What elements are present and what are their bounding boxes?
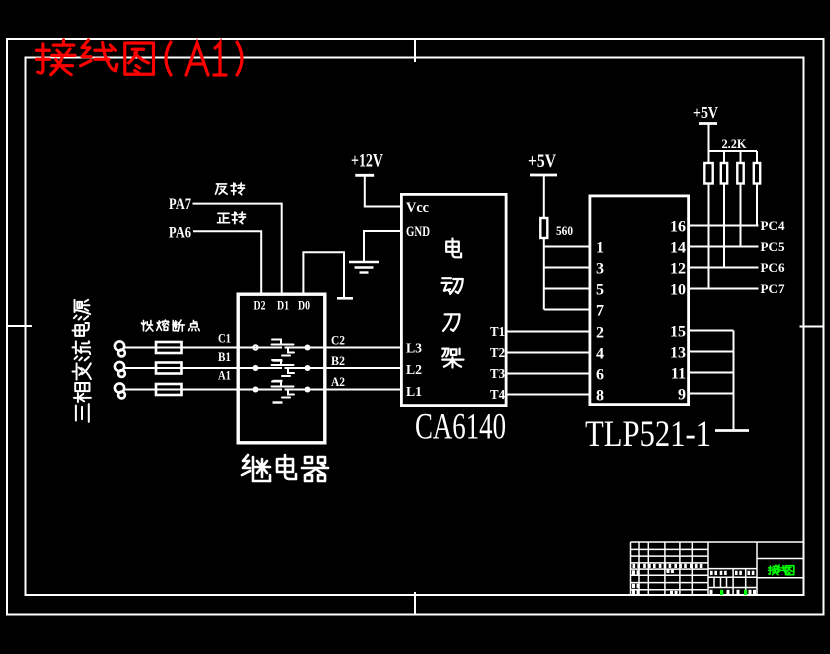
svg-text:PC7: PC7 [761,281,785,296]
wire pin 9 to common [689,393,734,395]
terminal A1 input [115,383,124,392]
wire pin 16 to PC4 [689,225,759,227]
linkage mark row A [273,401,283,403]
svg-text:B1: B1 [218,349,231,364]
svg-text:L2: L2 [406,363,422,378]
wire branch to pin 1 [544,246,590,248]
svg-text:9: 9 [678,387,686,404]
wire phase A1 [124,389,282,391]
relay contact row B [253,365,259,371]
svg-text:T4: T4 [490,388,505,403]
svg-text:4: 4 [596,346,604,363]
wire resistor #2 down [723,184,725,268]
svg-text:2: 2 [596,325,604,342]
drawing name 接线图 (green) [769,565,780,575]
wire GND pin to ground [364,231,401,262]
terminal C1 input [115,341,124,350]
resistor 560 [543,175,545,218]
fuse C1 (快熔) [156,342,182,353]
svg-text:2.2K: 2.2K [722,136,748,151]
svg-text:GND: GND [406,224,430,240]
svg-text:16: 16 [670,219,686,236]
svg-text:15: 15 [670,324,686,341]
wire PA7 to D1 [193,204,282,293]
svg-text:PA7: PA7 [169,196,191,213]
title block grid [631,542,805,596]
wire resistor #4 down [756,184,758,226]
svg-text:14: 14 [670,240,686,257]
wire phase B1 [124,367,282,369]
svg-text:L1: L1 [406,385,422,400]
junction dot row B [305,365,311,371]
wire D0 stub [303,252,344,297]
svg-text:13: 13 [670,345,686,362]
svg-text:+5V: +5V [693,103,719,122]
wire +12V to Vcc [365,175,401,206]
wire pin 13 to common [689,351,734,353]
svg-text:A1: A1 [218,368,231,383]
svg-text:7: 7 [596,303,604,320]
termination bar [715,429,749,432]
label 快熔断点 [141,320,153,331]
svg-text:D0: D0 [298,299,310,313]
wire pin 11 to common [689,372,734,374]
wire +5V to bus [709,124,758,152]
svg-text:D2: D2 [254,299,266,313]
wire resistor #3 down [740,184,742,247]
label 反转 [215,184,227,194]
label 三相交流电源 (three-phase AC supply) [74,300,90,320]
svg-text:PC6: PC6 [761,260,785,275]
label 电动刀架 vertical [446,238,461,257]
label 正转 [217,213,229,222]
wire pin 10 to PC7 [689,288,759,290]
CA6140 interface box (电动刀架) [401,194,506,405]
wire pin 12 to PC6 [689,267,759,269]
inner border frame [26,58,804,596]
wire phase C1 [124,347,282,349]
title text 接线图(A1) [36,40,75,75]
svg-text:A2: A2 [331,374,345,389]
resistor 2.2K #1 [708,151,710,163]
ground bar of D0 stub [337,297,353,300]
common wire down [733,331,735,431]
centering tick right [800,326,825,328]
wire resistor #1 down [708,184,710,289]
wire branch to pin 5 [544,288,590,290]
wire PA6 to D2 [193,231,261,292]
svg-text:11: 11 [671,366,686,383]
svg-text:L3: L3 [406,342,422,357]
svg-text:560: 560 [556,223,573,238]
svg-text:+12V: +12V [351,151,383,172]
fuse B1 (快熔) [156,363,182,374]
fuse A1 (快熔) [156,384,182,395]
svg-text:3: 3 [596,261,604,278]
junction dot row A [305,387,311,393]
relay K1 box (继电器) [238,294,325,443]
wire T1 to TLP pin 2 [506,331,590,333]
svg-text:CA6140: CA6140 [415,407,506,448]
centering tick left [6,325,32,327]
svg-text:+5V: +5V [528,151,556,172]
wire pin 14 to PC5 [689,246,759,248]
centering tick top [414,38,416,62]
svg-text:T1: T1 [490,325,505,340]
svg-text:T3: T3 [490,367,505,382]
linkage mark row C [273,359,283,361]
linkage mark row B [273,380,283,382]
wire T3 to TLP pin 6 [506,373,590,375]
svg-text:T2: T2 [490,346,505,361]
svg-text:PA6: PA6 [169,225,191,242]
label 继电器 [242,455,270,481]
svg-text:6: 6 [596,367,604,384]
title block tiny text [633,564,703,568]
wire T4 to TLP pin 8 [506,394,590,396]
svg-text:12: 12 [670,261,686,278]
svg-text:PC5: PC5 [761,239,785,254]
wire T2 to TLP pin 4 [506,352,590,354]
terminal B1 input [115,362,124,371]
ground symbol [349,262,379,273]
centering tick bottom [414,592,416,616]
svg-text:PC4: PC4 [761,218,785,233]
resistor 2.2K #2 [723,151,725,163]
svg-text:1: 1 [596,240,604,257]
wire branch to pin 3 [544,267,590,269]
svg-text:10: 10 [670,282,686,299]
svg-text:D1: D1 [277,299,289,313]
svg-text:C2: C2 [331,333,345,348]
junction dot row C [305,345,311,351]
svg-text:B2: B2 [331,353,345,368]
relay contact row C [253,345,258,350]
optocoupler TLP521-1 box [590,196,689,405]
wire branch to pin 7 [544,309,590,311]
resistor 2.2K #3 [740,151,742,163]
svg-text:5: 5 [596,282,604,299]
wire pin 15 to common [689,330,734,332]
svg-text:TLP521-1: TLP521-1 [585,414,711,455]
svg-text:C1: C1 [218,331,231,346]
svg-text:Vcc: Vcc [406,200,429,216]
wire 560 to TLP pins 1,3,5,7 [543,238,545,310]
relay contact row A [253,387,259,393]
resistor 2.2K #4 [756,151,758,163]
svg-text:8: 8 [596,388,604,405]
